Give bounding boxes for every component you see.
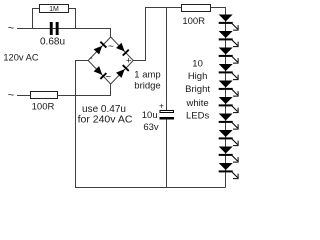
svg-text:120v AC: 120v AC: [3, 52, 38, 62]
svg-text:1 amp: 1 amp: [134, 69, 160, 80]
svg-text:Bright: Bright: [185, 84, 210, 95]
svg-text:-: -: [89, 53, 92, 64]
svg-text:High: High: [188, 71, 208, 82]
svg-text:~: ~: [8, 23, 14, 35]
svg-text:+: +: [126, 55, 132, 66]
svg-text:for 240v AC: for 240v AC: [78, 113, 133, 125]
svg-text:0.68u: 0.68u: [40, 37, 65, 48]
svg-text:white: white: [186, 98, 209, 109]
svg-text:LEDs: LEDs: [186, 110, 209, 121]
svg-text:1M: 1M: [49, 6, 59, 13]
svg-text:100R: 100R: [32, 102, 55, 113]
svg-text:100R: 100R: [182, 16, 205, 27]
svg-text:~: ~: [108, 42, 114, 53]
svg-text:10u: 10u: [142, 110, 158, 121]
svg-text:bridge: bridge: [134, 81, 160, 92]
svg-text:10: 10: [192, 59, 203, 70]
svg-text:~: ~: [8, 89, 14, 101]
svg-text:+: +: [159, 101, 164, 111]
svg-text:63v: 63v: [143, 122, 159, 133]
svg-text:~: ~: [105, 72, 111, 83]
